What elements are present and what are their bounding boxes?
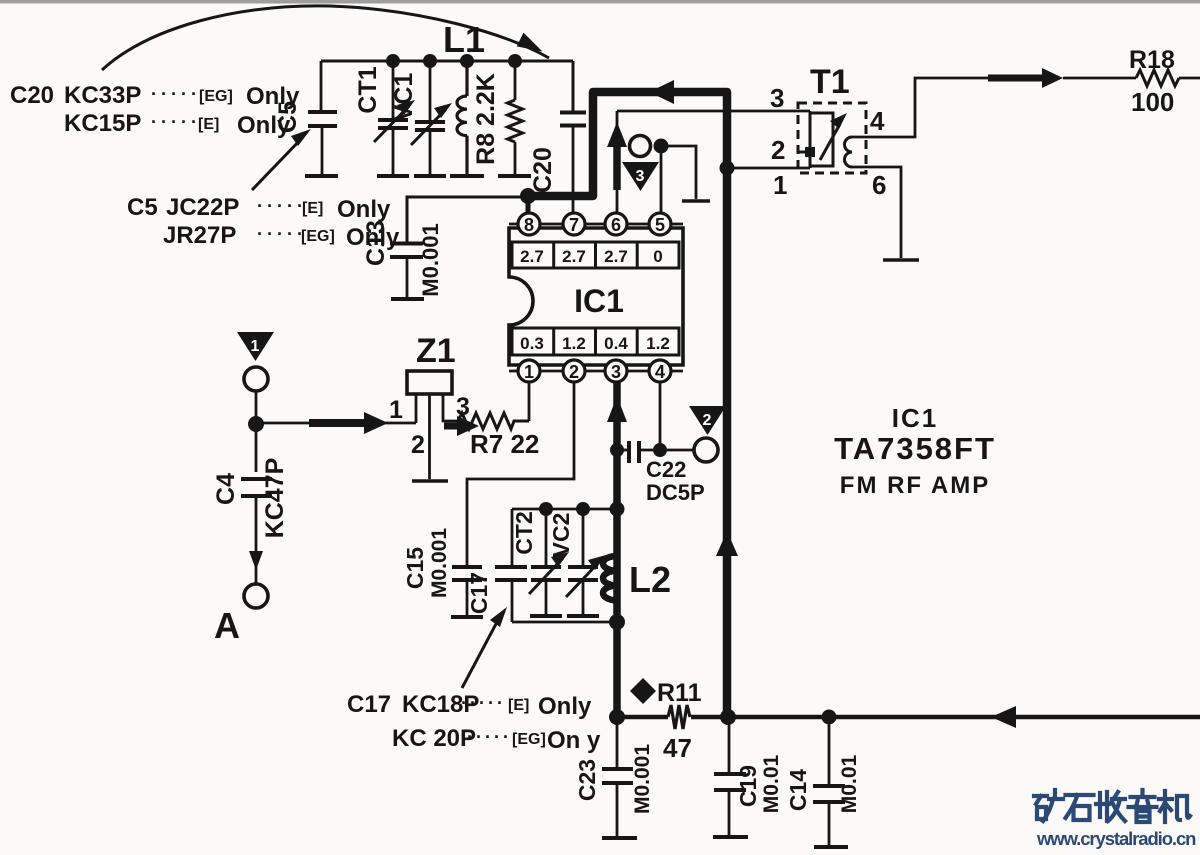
svg-text:C17: C17 <box>347 691 391 718</box>
resistor R11 <box>668 705 690 729</box>
svg-text:Only: Only <box>337 196 391 223</box>
tank2 top rail <box>512 508 617 511</box>
svg-text:R11: R11 <box>657 679 702 707</box>
svg-text:C22: C22 <box>646 457 686 482</box>
svg-text:M0.001: M0.001 <box>631 744 654 814</box>
svg-text:2: 2 <box>569 362 579 382</box>
svg-text:On y: On y <box>547 727 601 754</box>
flag marker 1 <box>237 332 274 361</box>
node dot CT2 <box>539 502 553 516</box>
svg-text:M0.001: M0.001 <box>418 223 443 296</box>
svg-text:L1: L1 <box>443 19 485 60</box>
svg-text:47: 47 <box>663 733 692 763</box>
svg-text:C5: C5 <box>274 101 302 133</box>
svg-text:C5: C5 <box>127 194 158 221</box>
wire antenna to Z1 <box>256 422 416 425</box>
pin tie ticks bottom <box>509 370 683 373</box>
svg-text:JR27P: JR27P <box>163 222 236 249</box>
svg-text:2.7: 2.7 <box>604 247 628 266</box>
svg-text:·····: ····· <box>151 112 201 132</box>
wire pin5 node to ground <box>661 146 696 199</box>
svg-text:C13: C13 <box>362 220 390 266</box>
wire T1 pin1 <box>727 167 810 170</box>
svg-text:C19: C19 <box>735 765 761 807</box>
svg-text:R8 2.2K: R8 2.2K <box>472 73 500 165</box>
svg-text:·····: ····· <box>257 196 307 216</box>
T1 secondary winding <box>845 137 852 167</box>
svg-text:1: 1 <box>251 338 260 355</box>
svg-text:L2: L2 <box>629 559 671 600</box>
svg-text:www.crystalradio.cn: www.crystalradio.cn <box>1036 828 1196 849</box>
wire antenna <box>255 391 258 472</box>
thick arrow right on pin4 wire <box>988 75 1046 82</box>
R11 marker diamond <box>630 678 656 704</box>
voltage box row top <box>512 242 679 268</box>
svg-text:1: 1 <box>389 396 403 424</box>
svg-text:C15: C15 <box>402 547 428 589</box>
svg-text:6: 6 <box>611 215 621 235</box>
svg-text:KC47P: KC47P <box>261 458 289 539</box>
node dot tank2 top right <box>610 502 625 517</box>
tank2 bottom rail <box>512 621 617 624</box>
ground bar pin5 net <box>682 199 710 203</box>
wire pin5 riser <box>660 153 663 213</box>
bus arrow up on T1 column <box>716 531 738 556</box>
node dot tank2 bottom right <box>609 614 625 630</box>
svg-text:VC1: VC1 <box>390 73 418 122</box>
capacitor C23 <box>602 717 637 838</box>
svg-text:A: A <box>214 605 240 646</box>
pin6 thick up arrow <box>607 122 627 147</box>
resistor R18 <box>1136 70 1179 86</box>
T1 core arrow <box>820 124 840 160</box>
svg-text:C23: C23 <box>574 759 600 801</box>
node dot pin4/C22 <box>653 443 667 457</box>
resistor R8 2.2K <box>498 61 531 176</box>
capacitor C15 <box>451 567 483 617</box>
pin circle 3 <box>605 360 627 382</box>
voltage box row bottom <box>512 328 679 355</box>
wire T1 pin4 out <box>852 78 990 137</box>
node dot L1 <box>460 54 474 68</box>
svg-text:3: 3 <box>636 168 645 185</box>
Z1 pin3 lead <box>443 394 458 421</box>
pin circle 5 <box>649 213 671 235</box>
svg-text:C17: C17 <box>466 572 492 614</box>
node dot pin5 <box>654 139 669 154</box>
varicap VC2 <box>566 509 600 616</box>
svg-text:0: 0 <box>653 247 662 266</box>
wire to R18 <box>1063 77 1136 80</box>
watermark logo crystalradio <box>1034 790 1190 822</box>
inductor L2 <box>603 556 617 600</box>
pin circle 6 <box>605 213 627 235</box>
node dot rail C14 <box>822 710 837 725</box>
svg-text:C4: C4 <box>212 473 240 505</box>
trimmer capacitor CT2 <box>529 509 563 616</box>
pin circle 7 <box>563 213 585 235</box>
stub pin7 <box>572 200 575 213</box>
node dot rail T1 column <box>720 709 736 725</box>
svg-text:[E]: [E] <box>302 200 323 217</box>
svg-text:CT2: CT2 <box>511 511 537 554</box>
test point circle 3 <box>630 136 651 157</box>
test point circle 2 <box>694 438 718 462</box>
wire T1 pin6 to ground <box>852 167 901 258</box>
flag marker 3 <box>622 162 659 191</box>
transformer T1 dashed box <box>798 103 866 173</box>
svg-text:2: 2 <box>411 431 425 459</box>
flag marker 2 <box>689 406 726 435</box>
wire pin6 riser <box>616 111 619 213</box>
svg-text:0.4: 0.4 <box>604 334 628 353</box>
wire R7 to pin1 <box>528 382 531 421</box>
Z1 pin1 lead <box>415 394 418 423</box>
T1 pin2 tap dot <box>805 147 815 157</box>
antenna terminal circle top <box>244 367 268 391</box>
svg-text:1: 1 <box>524 362 534 382</box>
svg-text:[EG]: [EG] <box>301 228 335 245</box>
svg-text:DC5P: DC5P <box>646 480 705 505</box>
Z1 pin2 lead <box>428 394 431 479</box>
svg-text:2: 2 <box>771 135 785 165</box>
up arrow pin3 column <box>607 396 627 422</box>
antenna terminal circle bottom <box>244 584 268 608</box>
node dot VC2 <box>576 502 590 516</box>
capacitor C19 <box>713 717 748 837</box>
capacitor C4 <box>241 479 272 555</box>
thick arrow on R7 feed <box>444 423 460 430</box>
pointer arrow to C17 <box>462 622 497 688</box>
svg-text:T1: T1 <box>810 63 850 101</box>
down arrow to terminal A <box>249 551 263 570</box>
svg-text:FM RF AMP: FM RF AMP <box>840 472 990 499</box>
svg-text:[E]: [E] <box>198 116 219 133</box>
capacitor C5 <box>305 61 338 176</box>
svg-text:4: 4 <box>655 362 665 382</box>
resistor R7 <box>458 413 529 429</box>
thick wire pin3 column <box>613 382 621 717</box>
capacitor C13 <box>390 244 424 300</box>
svg-text:2.7: 2.7 <box>562 247 586 266</box>
svg-text:C20: C20 <box>10 82 54 109</box>
ground bar T1 pin6 <box>883 258 919 262</box>
node dot rail C23 <box>609 709 625 725</box>
capacitor C22 <box>621 441 694 463</box>
svg-text:R18: R18 <box>1129 46 1175 74</box>
svg-text:Only: Only <box>538 693 592 720</box>
wire pin2 to C15 <box>467 382 574 565</box>
node dot antenna <box>248 416 264 432</box>
pin circle 4 <box>649 360 671 382</box>
node dot pin8/C20 <box>520 188 536 204</box>
pin circle 8 <box>518 213 540 235</box>
wire C13 feed <box>407 197 528 242</box>
svg-text:M0.01: M0.01 <box>760 755 783 814</box>
node dot VC1 <box>423 54 437 68</box>
svg-text:4: 4 <box>870 106 885 136</box>
svg-text:KC33P: KC33P <box>64 82 141 109</box>
wire top rail <box>321 60 573 63</box>
filter Z1 box <box>407 371 452 394</box>
svg-text:5: 5 <box>655 215 665 235</box>
svg-text:······: ······ <box>452 693 506 713</box>
pointer arrow to C5 <box>252 137 303 190</box>
svg-text:1: 1 <box>773 170 787 200</box>
bus arrow left on top segment <box>649 80 674 104</box>
svg-text:CT1: CT1 <box>354 66 382 113</box>
svg-text:·····: ····· <box>151 84 201 104</box>
svg-text:0.3: 0.3 <box>520 334 544 353</box>
note arc C20 alternatives <box>102 6 549 70</box>
svg-text:[EG]: [EG] <box>199 88 233 105</box>
left arrow on bottom rail <box>991 706 1016 728</box>
arc arrowhead <box>517 32 544 51</box>
svg-text:1.2: 1.2 <box>562 334 586 353</box>
wire T1 pin3 <box>617 110 810 113</box>
svg-text:3: 3 <box>770 83 784 113</box>
trimmer capacitor CT1 <box>374 61 409 176</box>
svg-text:R7 22: R7 22 <box>470 429 539 459</box>
svg-text:1.2: 1.2 <box>646 334 670 353</box>
thick bus wire pin8 to T1 column <box>525 92 727 717</box>
node dot CT1 <box>386 54 400 68</box>
svg-text:100: 100 <box>1131 87 1174 117</box>
pin circle 2 <box>563 360 585 382</box>
svg-text:8: 8 <box>524 215 534 235</box>
varicap VC1 <box>411 61 446 176</box>
bottom rail <box>617 715 1200 720</box>
svg-text:M0.001: M0.001 <box>428 528 451 598</box>
svg-text:C14: C14 <box>785 769 811 811</box>
capacitor C17 in series <box>495 509 527 622</box>
pin tie ticks top <box>509 223 683 226</box>
svg-text:IC1: IC1 <box>574 283 624 319</box>
svg-text:Z1: Z1 <box>416 332 456 370</box>
svg-text:2: 2 <box>703 412 712 429</box>
svg-text:JC22P: JC22P <box>166 194 239 221</box>
svg-text:[E]: [E] <box>508 697 529 714</box>
svg-text:KC 20P: KC 20P <box>392 725 476 752</box>
svg-text:7: 7 <box>569 215 579 235</box>
pin circle 1 <box>518 360 540 382</box>
svg-text:VC2: VC2 <box>548 513 574 558</box>
svg-text:[EG]: [EG] <box>512 731 546 748</box>
svg-text:IC1: IC1 <box>892 403 938 433</box>
svg-text:2.7: 2.7 <box>520 247 544 266</box>
node dot C22 left <box>610 443 624 457</box>
capacitor C14 <box>813 717 848 847</box>
svg-text:M0.01: M0.01 <box>838 755 861 814</box>
svg-text:·····: ····· <box>257 224 307 244</box>
svg-text:3: 3 <box>611 362 621 382</box>
inductor L1 <box>450 61 484 176</box>
svg-text:KC15P: KC15P <box>64 110 141 137</box>
T1 primary winding <box>809 111 812 168</box>
svg-text:TA7358FT: TA7358FT <box>834 431 996 466</box>
node dot R8 <box>508 54 522 68</box>
junction dot T1 pin1 node <box>720 161 735 176</box>
stub pin8 <box>526 196 531 213</box>
capacitor C20 <box>560 61 586 196</box>
svg-text:6: 6 <box>872 170 886 200</box>
thick arrow right antenna feed <box>309 419 366 427</box>
op IC1 body <box>509 228 683 365</box>
wire pin4 drop <box>659 382 662 450</box>
svg-text:C20: C20 <box>529 147 557 193</box>
svg-text:·····: ····· <box>467 727 512 747</box>
